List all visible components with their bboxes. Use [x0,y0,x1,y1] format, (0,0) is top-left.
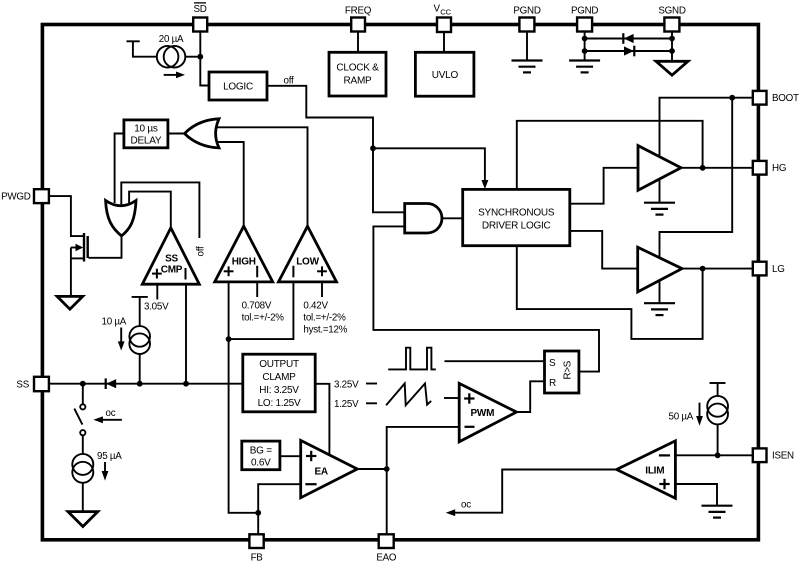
node FB junction [255,510,261,516]
wire PWGD OR output to MOSFET gate [89,236,122,258]
wire ILIM non-inverting input to ground [675,484,717,506]
pin SGND (top) [658,5,685,31]
svg-text:1.25V: 1.25V [334,399,359,410]
pin ISEN (right) [753,448,794,462]
svg-text:SD: SD [193,4,206,15]
svg-text:0.708V: 0.708V [242,301,272,312]
wire EA output from apex [357,468,386,470]
wire HIGH output up to OR1 input [216,142,244,226]
wire BOOT to LG driver supply [660,98,733,258]
wire VCC pin to UVLO [443,32,445,52]
current source I2 10uA [102,317,151,355]
op-amp EA error amplifier [301,440,358,497]
wire SS CMP output to PWGD OR gate [129,192,171,228]
svg-text:EAO: EAO [376,553,397,564]
wire junction to sync driver logic arrow [373,148,488,189]
ground below PGND2 [569,61,600,73]
comparator SS CMP [142,228,199,284]
wire LOW- input link [229,282,294,339]
wire HG driver output to HG pin [681,167,753,169]
block CLOCK & RAMP [329,52,386,96]
wire OR1 output to delay [168,133,185,135]
block 10us DELAY [124,120,168,148]
gate AND1 [405,204,442,234]
svg-text:tol.=+/-2%: tol.=+/-2% [303,313,346,324]
wire SS CMP inverting input sense [185,284,187,384]
wire 10uA source branch with supply T-bar [132,297,148,384]
pin FREQ (top) [345,6,372,32]
svg-text:S: S [549,358,556,369]
svg-text:UVLO: UVLO [432,70,459,81]
pin SD (shutdown, top) [193,3,207,32]
diode D3 on SS line (cathode left) [106,378,117,389]
svg-text:HIGH: HIGH [232,257,256,268]
svg-text:LG: LG [772,264,785,275]
wire PGND2 to ground [584,32,586,61]
block OUTPUT CLAMP [243,354,315,412]
wire HIGH reference stub [242,282,285,324]
wire ramp to PWM non-inverting input [444,397,459,399]
wire FREQ pin to clock/ramp [357,32,359,53]
node BOOT junction [729,95,735,101]
ground triangle below SGND [656,61,688,75]
pin VCC (top) [434,4,452,33]
ground triangle below 95uA [68,512,98,527]
svg-text:BG =: BG = [250,446,272,457]
svg-text:LO: 1.25V: LO: 1.25V [258,398,301,409]
svg-text:EA: EA [315,467,328,478]
pin PWGD (left) [1,189,49,203]
wire LG sense back to driver logic [517,246,703,339]
svg-text:CMP: CMP [161,265,183,276]
svg-text:50 µA: 50 µA [669,412,694,423]
gate OR1 (output left to delay) [185,119,220,148]
wire 20uA supply T-bar [127,41,157,56]
wire EA output to PWM inverting input [387,427,460,469]
svg-text:PWGD: PWGD [1,192,31,203]
node SS CMP sense junction [183,381,189,387]
wire SS CMP 3.05V reference stub [144,284,169,312]
waveform clock pulses [388,348,436,370]
svg-text:LOW: LOW [296,257,319,268]
svg-text:BOOT: BOOT [772,93,799,104]
comparator PWM [459,383,516,441]
current source I1 20uA [157,34,198,78]
pin BOOT (right) [753,91,799,105]
svg-text:95 µA: 95 µA [97,451,122,462]
wire BOOT rail [660,98,753,157]
svg-text:hyst.=12%: hyst.=12% [303,325,347,336]
ground below HG driver [644,203,675,215]
wire SD pin to LOGIC [200,32,209,86]
block SYNCHRONOUS DRIVER LOGIC [463,189,570,245]
svg-text:FB: FB [251,553,264,564]
pin PGND 1 (top) [513,5,540,31]
comparator LOW [279,226,337,282]
wire 95uA to ground [82,483,84,512]
switch SW1 (oc controlled) [74,404,122,435]
node SS 10uA junction [137,381,143,387]
node SD/20uA junction [197,54,203,60]
buffer LG driver [638,247,682,292]
wire 50uA source branch with supply T-bar [710,383,726,455]
wire FB junction to EA inverting input [258,484,301,513]
node EA output [384,466,390,472]
buffer HG driver [638,146,681,191]
svg-text:PGND: PGND [513,5,540,16]
svg-text:RAMP: RAMP [344,76,372,87]
wire driver logic to HG driver input [570,168,638,204]
svg-text:HG: HG [772,163,786,174]
block LOGIC [209,72,267,100]
pin HG (right) [753,161,786,175]
wire LG driver output to LG pin [682,268,753,270]
svg-text:10 µA: 10 µA [102,317,127,328]
pin FB (bottom) [249,534,263,563]
svg-text:R>S: R>S [563,360,574,379]
wire switch branch from SS line [82,384,84,405]
svg-text:CC: CC [440,8,451,17]
wire off stub into PWGD OR gate [121,182,206,256]
svg-text:3.05V: 3.05V [144,302,169,313]
wire LOW output up to OR1 input [216,127,308,226]
svg-text:off: off [284,76,294,87]
svg-text:R: R [549,378,556,389]
wire HIGH+ and LOW- inputs to FB [229,282,259,513]
wire BG reference to EA non-inverting input [280,455,301,457]
wire EA output to EAO pin [386,469,388,535]
wire PWM output to RS flip-flop R input [517,381,545,412]
wire PGND1 to ground [526,32,528,61]
comparator ILIM (points left) [617,441,676,498]
svg-text:3.25V: 3.25V [334,380,359,391]
block UVLO [415,52,474,96]
svg-text:CLOCK &: CLOCK & [336,63,379,74]
flip-flop U2 R>S latch [545,351,579,393]
svg-text:DRIVER LOGIC: DRIVER LOGIC [482,221,551,232]
node HG output [700,165,706,171]
wire HG sense back to driver logic [517,121,703,190]
svg-text:oc: oc [106,408,116,419]
node ISEN junction [715,452,721,458]
svg-text:off: off [196,246,207,256]
wire RS output to AND gate bottom input [373,226,599,371]
node SS switch junction [80,381,86,387]
wire switch to 95uA source [82,435,84,454]
pin LG (right) [753,262,785,276]
wire ILIM inverting input to ISEN pin [675,454,752,456]
svg-text:10 µs: 10 µs [134,124,158,135]
wire PWGD pin to MOSFET drain [49,196,84,236]
wire delay output to PWGD OR gate [115,134,124,204]
label clamp levels 3.25V / 1.25V [334,380,377,411]
gate OR2 PWGD (output down) [106,201,136,236]
wire upper diode link PGND2-SGND [585,38,672,40]
ground below ILIM non-inverting input [702,506,733,518]
svg-text:SS: SS [16,379,29,390]
wire ILIM output oc signal [446,470,617,517]
svg-text:ISEN: ISEN [772,451,794,462]
node LG output [700,266,706,272]
wire LG driver ground stub [659,280,661,303]
ground below PGND1 [512,61,543,73]
svg-text:FREQ: FREQ [345,6,372,17]
wire SS line from pin to output clamp [49,383,243,385]
diode D1 (anode SGND side, pointing left) [623,33,633,44]
current source I3 95uA [72,451,122,483]
svg-text:tol.=+/-2%: tol.=+/-2% [242,313,285,324]
current source I4 50uA [669,396,728,426]
diode D2 (anode PGND side, pointing right) [624,46,634,57]
svg-text:OUTPUT: OUTPUT [259,359,299,370]
svg-text:0.6V: 0.6V [251,458,271,469]
svg-text:20 µA: 20 µA [159,34,184,45]
wire LOGIC off output to driver logic [267,76,373,149]
svg-text:CLAMP: CLAMP [262,372,296,383]
wire FB junction to FB pin [257,513,259,535]
wire junction down to AND gate top input [373,148,405,212]
wire AND output to driver logic [442,217,463,219]
svg-text:HI: 3.25V: HI: 3.25V [259,385,299,396]
pin SS (left) [16,377,48,391]
node HIGH/LOW sense junction [226,336,232,342]
svg-text:PWM: PWM [471,408,495,419]
node PGND2 diode taps [582,36,588,54]
pin EAO (bottom) [376,534,397,563]
wire LOW reference stub [303,282,347,336]
wire driver logic to LG driver input [570,231,638,269]
svg-text:SGND: SGND [658,5,685,16]
comparator HIGH [215,226,273,282]
svg-text:ILIM: ILIM [645,465,664,476]
ground triangle below PWGD MOSFET [57,296,83,309]
wire clock to RS flip-flop S input [445,360,545,362]
block BG reference 0.6V [242,441,280,470]
svg-text:0.42V: 0.42V [303,301,328,312]
node SGND diode taps [669,36,675,54]
wire output clamp to EA [315,384,329,455]
svg-text:SS: SS [165,254,178,265]
transistor Q1 PWGD MOSFET [71,233,88,296]
waveform sawtooth ramp [386,384,431,406]
svg-text:PGND: PGND [571,5,598,16]
wire HG driver ground stub [659,179,661,203]
svg-text:DELAY: DELAY [130,136,161,147]
wire lower diode link PGND2-SGND [585,50,672,52]
svg-text:LOGIC: LOGIC [223,82,253,93]
pin PGND 2 (top) [571,5,598,31]
wire SGND to ground [671,32,673,62]
ground below LG driver [644,303,675,315]
svg-text:SYNCHRONOUS: SYNCHRONOUS [478,208,555,219]
svg-text:oc: oc [461,500,471,511]
node off line junction [370,145,376,151]
